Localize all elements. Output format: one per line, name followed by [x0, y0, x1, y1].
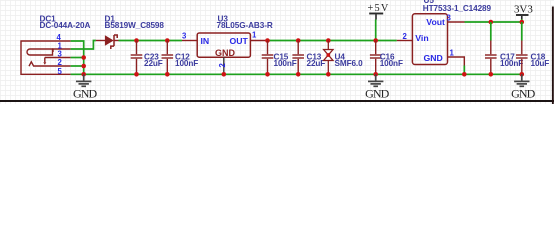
junction C16/+5V/rail [373, 38, 378, 43]
junction U3 GND/bus [222, 72, 227, 77]
wire: jack pin4 to ground column [71, 41, 84, 74]
junction C23/rail [134, 38, 139, 43]
svg-text:GND: GND [365, 87, 390, 101]
svg-text:22uF: 22uF [144, 59, 163, 68]
svg-text:2: 2 [218, 63, 227, 68]
sheet border bottom [0, 100, 554, 102]
capacitor C18 [516, 41, 528, 75]
capacitor C13 [292, 41, 304, 75]
junction C15/rail [265, 38, 270, 43]
junction C18/bus end [520, 72, 525, 77]
wire: main VIN rail after D1 [119, 40, 183, 42]
junction U4/rail [326, 38, 331, 43]
regulator U3 [197, 33, 250, 57]
ground symbol middle [368, 74, 383, 86]
svg-text:10uF: 10uF [531, 59, 550, 68]
svg-text:SMF6.0: SMF6.0 [335, 59, 364, 68]
junction C12/rail [165, 38, 170, 43]
capacitor C16 [370, 41, 382, 75]
svg-text:1: 1 [252, 31, 257, 40]
junction C23/bus [134, 72, 139, 77]
U5 Vout pin wire [448, 21, 465, 23]
svg-text:+5V: +5V [368, 3, 389, 14]
junction U5 GND/bus [462, 72, 467, 77]
svg-text:3V3: 3V3 [514, 3, 533, 15]
svg-text:22uF: 22uF [307, 59, 326, 68]
wire: U5 GND to bus [463, 66, 465, 75]
svg-text:GND: GND [424, 53, 443, 63]
wire: jack pin1 to diode [71, 41, 96, 50]
junction U4/bus [326, 72, 331, 77]
svg-text:100nF: 100nF [380, 59, 403, 68]
U3 OUT pin wire [250, 40, 267, 42]
ground symbol left [76, 74, 91, 86]
junction C13/bus [296, 72, 301, 77]
junction jack pin5 / bus [81, 72, 86, 77]
svg-text:100nF: 100nF [500, 59, 523, 68]
wire: rail into U3 IN [182, 40, 197, 42]
diode D1 [96, 40, 105, 42]
junction jack pin2 [81, 64, 86, 69]
power symbol 3V3 [516, 14, 529, 16]
wire: 3V3 rail [465, 21, 522, 23]
capacitor C12 [162, 41, 174, 75]
TVS diode U4 [324, 41, 333, 75]
junction C18/3V3/rail end [520, 20, 525, 25]
ground symbol right [514, 74, 529, 86]
wire: jack pin3 [71, 57, 84, 59]
capacitor C17 [485, 41, 497, 75]
svg-text:2: 2 [403, 32, 408, 41]
svg-text:5: 5 [58, 67, 63, 76]
svg-text:78L05G-AB3-R: 78L05G-AB3-R [217, 21, 273, 30]
svg-text:1: 1 [450, 48, 455, 57]
svg-text:HT7533-1_C14289: HT7533-1_C14289 [423, 4, 492, 13]
svg-text:GND: GND [511, 87, 536, 101]
svg-text:DC-044A-20A: DC-044A-20A [40, 21, 91, 30]
svg-text:100nF: 100nF [175, 59, 198, 68]
svg-text:OUT: OUT [230, 36, 249, 46]
svg-text:Vin: Vin [415, 33, 428, 43]
junction C17/bus [489, 72, 494, 77]
junction C12/bus [165, 72, 170, 77]
wire: GND bus [71, 73, 522, 75]
wire: +5V rail U3 OUT to U5 [268, 40, 397, 42]
junction C15/bus [265, 72, 270, 77]
junction C13/rail [296, 38, 301, 43]
wire: rail into U5 Vin [397, 40, 413, 42]
svg-text:100nF: 100nF [274, 59, 297, 68]
svg-text:3: 3 [58, 50, 63, 59]
sheet border right [552, 7, 554, 105]
junction C16/bus [373, 72, 378, 77]
U5 GND pin wire [448, 57, 465, 66]
svg-text:Vout: Vout [426, 17, 445, 27]
power symbol +5V [369, 13, 383, 15]
junction C17/3V3 rail [489, 20, 494, 25]
regulator U5 [412, 14, 447, 65]
svg-text:3: 3 [182, 32, 187, 41]
svg-text:B5819W_C8598: B5819W_C8598 [105, 21, 165, 30]
svg-text:IN: IN [201, 36, 210, 46]
svg-text:2: 2 [58, 58, 63, 67]
capacitor C23 [131, 41, 143, 75]
wire: jack pin2 [71, 65, 84, 67]
wire: C18 drop [521, 22, 523, 41]
svg-text:GND: GND [215, 48, 236, 58]
DC1 switch arrowhead [43, 62, 46, 65]
capacitor C15 [262, 41, 274, 75]
junction jack pin3 [81, 55, 86, 60]
svg-text:GND: GND [73, 87, 98, 101]
svg-text:3: 3 [447, 14, 452, 23]
connector DC1 [21, 41, 71, 74]
wire: C17 drop [490, 22, 492, 41]
U3 GND pin wire [223, 57, 225, 74]
